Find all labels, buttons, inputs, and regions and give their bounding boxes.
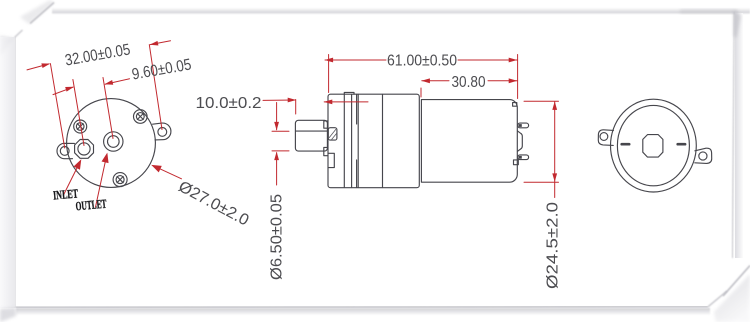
head inner line 2 xyxy=(351,94,353,187)
shaft boss centre xyxy=(643,135,663,158)
tube lower flange tab xyxy=(324,147,328,155)
head inner line 1 xyxy=(343,94,345,187)
front left mounting tab xyxy=(57,143,75,158)
left dash mark xyxy=(622,143,630,146)
outlet leader arrow xyxy=(96,158,107,208)
head face notch lower xyxy=(328,153,334,167)
motor end bracket xyxy=(518,131,523,151)
screw upper-left xyxy=(74,120,87,133)
inlet port octagon xyxy=(75,140,94,159)
30.80 ext tick xyxy=(420,88,422,97)
front right mounting tab xyxy=(153,123,171,140)
9.60 left arrow xyxy=(53,87,73,94)
32.00 right arrow xyxy=(150,41,170,45)
ext line left tab hole (32.00 dim) xyxy=(50,64,64,148)
inlet port bore xyxy=(78,143,90,155)
dia27 leader arrow xyxy=(155,166,182,179)
outlet port ring xyxy=(104,132,123,151)
ext line inlet centre (9.60 dim) xyxy=(73,80,84,146)
30.80 dim line xyxy=(422,80,449,82)
svg-text:61.00±0.50: 61.00±0.50 xyxy=(387,53,457,70)
end view left tab xyxy=(598,130,613,146)
screw bottom xyxy=(113,173,127,187)
screw upper-right xyxy=(134,110,148,124)
10.0 leader line with right-pointing arrow xyxy=(263,99,296,101)
svg-text:Ø24.5±2.0: Ø24.5±2.0 xyxy=(545,202,562,289)
10.0 right arrow pointing at head face xyxy=(324,101,368,103)
top-left corner diagonal (under-sheet corner) xyxy=(20,0,54,24)
svg-text:10.0±0.2: 10.0±0.2 xyxy=(196,95,262,112)
dia24.5 bottom ext line xyxy=(524,181,559,183)
svg-text:OUTLET: OUTLET xyxy=(75,197,107,214)
svg-text:30.80: 30.80 xyxy=(452,74,486,91)
61.00 right ext line xyxy=(517,55,519,99)
top page edge shadow band xyxy=(52,8,750,14)
61.00 left ext line xyxy=(328,55,330,93)
head inner line 4 xyxy=(357,94,359,187)
svg-text:Ø6.50±0.05: Ø6.50±0.05 xyxy=(268,194,285,280)
left page edge xyxy=(0,37,15,308)
tube upper flange tab xyxy=(324,121,328,128)
pump front body circle xyxy=(67,99,156,188)
61.00 dim line xyxy=(325,59,386,61)
motor end outer ring xyxy=(611,99,697,192)
bottom-right fold diagonals xyxy=(708,291,727,307)
head top bump xyxy=(344,92,354,94)
end view left tab hole xyxy=(600,133,608,141)
dia24.5 dim line xyxy=(554,102,556,198)
front left tab hole xyxy=(60,147,69,156)
pump body block xyxy=(328,94,419,188)
motor terminal lower pin xyxy=(518,155,529,160)
10.0 ext tick at nozzle tip xyxy=(295,100,297,115)
head inner line 3 (notched) xyxy=(356,94,358,187)
body inner line xyxy=(382,94,384,187)
end view right tab hole xyxy=(699,152,707,160)
motor lower small square xyxy=(514,160,519,165)
nozzle tube xyxy=(295,120,327,151)
motor top-right small square xyxy=(513,103,517,107)
dia6.50 lower ext line xyxy=(272,150,289,152)
end view right tab xyxy=(695,148,712,163)
motor terminal upper pin xyxy=(518,123,529,128)
ext line right tab hole (32.00 dim) xyxy=(149,45,162,130)
32.00 left arrow xyxy=(27,64,49,70)
top edge darker toward right corner xyxy=(680,10,738,14)
inlet leader arrow xyxy=(64,164,80,196)
dia6.50 lower dim line xyxy=(276,153,278,185)
bottom page edge xyxy=(16,306,709,309)
right dash mark xyxy=(678,143,685,146)
9.60 right arrow xyxy=(105,79,129,84)
dia6.50 upper dim line xyxy=(276,103,278,130)
outlet port bore xyxy=(108,136,120,148)
top-left lower wedge xyxy=(0,36,14,54)
motor body xyxy=(421,100,517,183)
front right tab hole xyxy=(158,127,167,136)
right page edge xyxy=(732,12,734,258)
head face clip (hatched) xyxy=(328,128,337,140)
nozzle mid line xyxy=(296,130,328,132)
ext line outlet centre (9.60 dim) xyxy=(103,78,113,139)
dia24.5 top ext line xyxy=(524,100,559,102)
dia6.50 upper ext line xyxy=(272,130,289,132)
motor end inner ring xyxy=(617,105,689,185)
